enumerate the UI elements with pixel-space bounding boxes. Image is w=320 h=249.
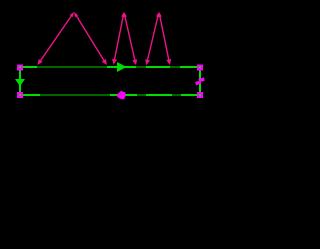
annotation arrow 2 left leg [114,14,124,62]
wire: left vertical segment [19,66,21,96]
node square bottom-right [197,92,203,98]
annotation arrow 2 right leg [124,14,135,63]
wire: top path bright segment 2 [107,66,136,68]
node square top-right [197,65,203,71]
node square top-left [17,65,23,71]
annotation arrow 1 right leg [75,14,105,63]
direction arrow: left segment (down) [15,79,25,86]
wire: bottom path dim underlay [19,94,202,96]
annotation arrow 1 left leg (big tent) [39,14,73,63]
wire: bottom path bright segment 2 [110,94,137,96]
wire: top path bright segment 3 [146,66,170,68]
wire: top path dim underlay [19,66,202,68]
wire: top path bright segment 4 [180,66,202,68]
annotation arrow 3 right leg [159,14,169,62]
wire: bottom path bright segment 1 [19,94,40,96]
wire: bottom path bright segment 3 [146,94,172,96]
direction arrow: top segment (right) [117,62,127,72]
wire: bottom path bright segment 4 [181,94,202,96]
wire: top path bright segment 1 [19,66,37,68]
node square bottom-left [17,92,23,98]
direction arrow: bottom segment (left, magenta) [116,91,125,99]
wire: right vertical segment [199,66,201,96]
direction arrow: right segment (magenta, tilted blob) [199,79,205,81]
annotation arrow 3 left leg [147,14,159,63]
